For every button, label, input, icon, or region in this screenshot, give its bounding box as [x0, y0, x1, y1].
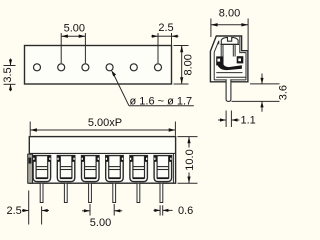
dimension 3.6 (side view right) [232, 74, 290, 112]
svg-text:ø 1.6 ~ ø 1.7: ø 1.6 ~ ø 1.7 [130, 95, 193, 107]
front view body outline [29, 137, 175, 184]
dimension 8.00 (top view right) [174, 46, 195, 85]
pin P3 [89, 183, 92, 202]
terminal cell 3 [82, 156, 100, 182]
hole H6 [155, 64, 162, 71]
hole H1 [34, 64, 41, 71]
pin P5 [160, 183, 163, 202]
top view body outline [25, 46, 172, 85]
svg-text:5.00xP: 5.00xP [88, 117, 122, 129]
hole H4 [106, 64, 113, 71]
dimension 5.00 (front view bottom) [82, 204, 122, 229]
terminal cell 2 [57, 156, 75, 182]
left end wall (gray) [28, 154, 33, 183]
cavity floor [216, 72, 242, 74]
svg-text:0.6: 0.6 [178, 205, 193, 217]
terminal cell 4 [106, 156, 124, 182]
svg-text:3.6: 3.6 [278, 85, 290, 100]
dimension 5.00 pitch (top view) [61, 23, 85, 64]
dimension 10.0 (front view right) [178, 137, 198, 184]
dimension 2.5 (front view bottom left) [7, 191, 50, 225]
svg-text:1.1: 1.1 [241, 115, 256, 127]
dimension 8.00 (side view top) [211, 8, 248, 51]
pin P1 [40, 183, 43, 202]
pin P4 [113, 183, 116, 202]
svg-text:8.00: 8.00 [219, 8, 240, 20]
svg-text:2.5: 2.5 [158, 22, 173, 34]
side view body outline [210, 36, 248, 82]
dimension 3.5 (top view left) [2, 59, 15, 92]
screw cavity walls [221, 44, 235, 56]
leader diameter label [111, 70, 194, 107]
screw head [220, 37, 239, 44]
terminal cell 6 [154, 156, 172, 182]
terminal cell 1 [33, 156, 51, 182]
svg-text:10.0: 10.0 [184, 149, 196, 170]
svg-text:3.5: 3.5 [2, 67, 14, 82]
svg-text:8.00: 8.00 [183, 54, 195, 75]
dimension 0.6 (front view bottom right) [154, 205, 194, 217]
svg-text:5.00: 5.00 [90, 217, 111, 229]
hole H2 [58, 64, 65, 71]
hole H5 [130, 64, 137, 71]
dimension 2.5 (top view right) [151, 22, 178, 64]
svg-text:5.00: 5.00 [64, 23, 85, 35]
terminal cell 5 [130, 156, 148, 182]
hole H3 [82, 64, 89, 71]
side pin [226, 79, 231, 101]
dimension 5.00xP (front view top) [30, 117, 175, 136]
dimension 1.1 (side view pin) [218, 111, 256, 128]
pin P2 [64, 183, 67, 202]
pin P6 [137, 183, 140, 202]
clamp metal (dark) [216, 56, 243, 70]
svg-text:2.5: 2.5 [7, 205, 22, 217]
